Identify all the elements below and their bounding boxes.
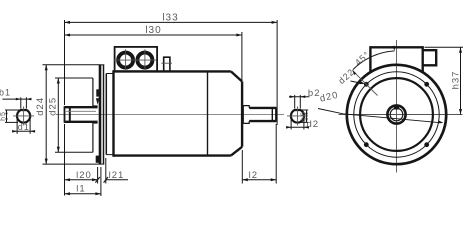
svg-text:l33: l33 — [162, 12, 178, 23]
svg-text:l2: l2 — [249, 170, 258, 181]
svg-text:d25: d25 — [47, 97, 58, 116]
svg-text:h37: h37 — [450, 71, 461, 90]
svg-text:d1: d1 — [18, 122, 30, 132]
svg-text:l21: l21 — [109, 170, 125, 181]
svg-text:d2: d2 — [307, 119, 320, 130]
svg-text:l30: l30 — [145, 25, 161, 36]
svg-text:b1: b1 — [0, 87, 11, 97]
svg-text:h5: h5 — [0, 111, 7, 121]
svg-text:l20: l20 — [76, 170, 92, 181]
svg-text:l1: l1 — [76, 184, 85, 195]
svg-text:d24: d24 — [35, 97, 46, 116]
